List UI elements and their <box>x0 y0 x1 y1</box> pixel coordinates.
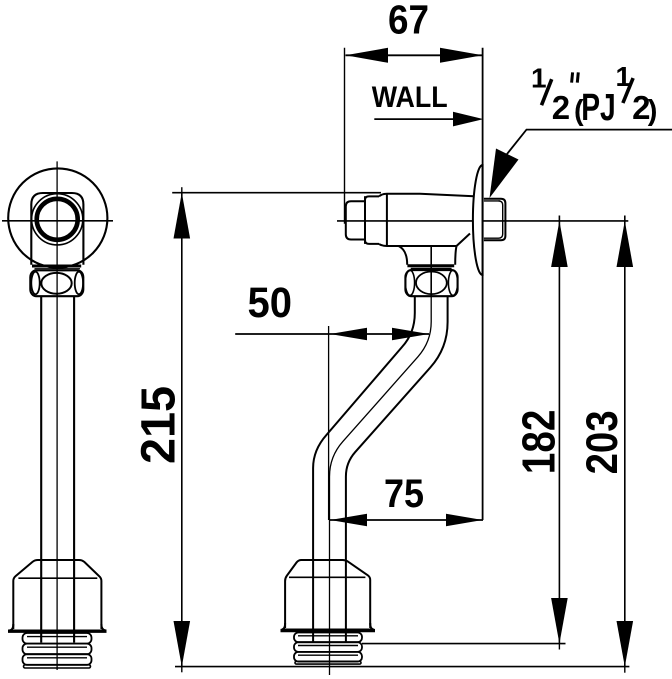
svg-text:2: 2 <box>552 89 570 126</box>
svg-text:67: 67 <box>388 0 429 43</box>
svg-text:182: 182 <box>513 410 565 475</box>
svg-text:50: 50 <box>248 279 293 327</box>
svg-text:215: 215 <box>133 386 186 464</box>
svg-text:203: 203 <box>578 410 627 474</box>
svg-text:1: 1 <box>531 62 547 93</box>
svg-text:WALL: WALL <box>372 81 448 114</box>
svg-text:): ) <box>648 95 658 127</box>
svg-text:PJ: PJ <box>581 87 616 129</box>
svg-text:75: 75 <box>384 472 424 516</box>
